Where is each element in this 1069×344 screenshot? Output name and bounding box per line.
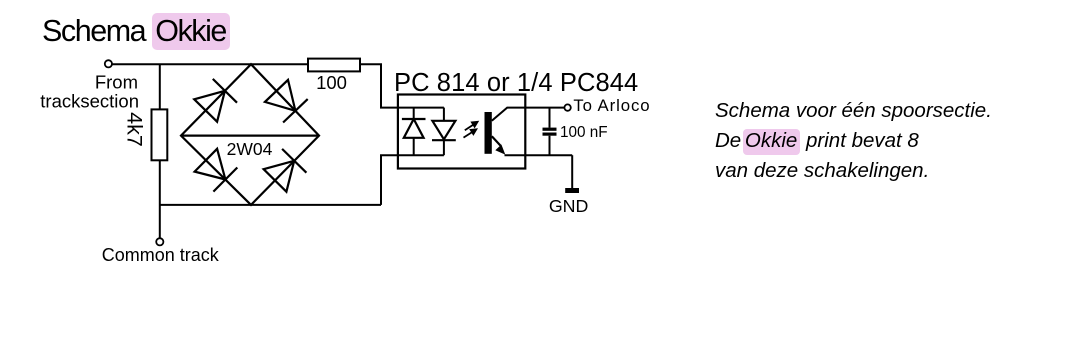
- wire resistor to opto (top input): [360, 64, 399, 107]
- wire top horizontal: [112, 63, 308, 65]
- emitter arrowhead: [495, 145, 505, 155]
- bridge rectifier 2W04 diamond outline: [181, 64, 319, 205]
- phototransistor collector: [492, 108, 565, 121]
- terminal (To Arloco): [564, 104, 570, 110]
- wire bottom to opto (bottom input): [381, 155, 399, 205]
- opto input bottom rail: [398, 154, 444, 156]
- svg-text:tracksection: tracksection: [40, 91, 139, 112]
- svg-text:GND: GND: [549, 196, 589, 216]
- optocoupler U1 package box: [398, 95, 525, 169]
- wire to ground: [571, 155, 573, 188]
- bridge diode D3 (left-to-bottom): [195, 149, 238, 192]
- wire bottom horizontal: [160, 204, 381, 206]
- wire left vertical: [159, 64, 161, 238]
- phototransistor Q1 base bar: [485, 112, 492, 154]
- svg-text:PC 814 or 1/4 PC844: PC 814 or 1/4 PC844: [394, 69, 638, 97]
- opto LED1 (pointing up): [402, 108, 426, 156]
- svg-text:100: 100: [316, 72, 347, 93]
- bridge mid line (left vertex to right vertex): [181, 135, 319, 137]
- light arrow 2: [464, 128, 479, 137]
- capacitor C1 bottom stub: [549, 136, 551, 156]
- bridge diode D1 (left-to-top): [194, 79, 237, 122]
- light arrow 1: [465, 121, 479, 130]
- svg-text:Common track: Common track: [102, 245, 220, 265]
- phototransistor emitter: [492, 136, 501, 145]
- title "Schema Okkie": [42, 14, 230, 49]
- resistor R2 100 body: [308, 59, 360, 72]
- opto input top rail: [398, 107, 444, 109]
- svg-text:To Arloco: To Arloco: [573, 96, 650, 115]
- opto LED2 (pointing down): [432, 108, 456, 156]
- bridge diode D4 (bottom-to-right): [264, 149, 307, 192]
- bridge diode D2 (top-to-right): [265, 80, 308, 123]
- capacitor C1 top stub: [549, 108, 551, 128]
- capacitor C1 plates: [543, 128, 557, 131]
- ground bar: [565, 188, 579, 193]
- note paragraph right side: [715, 96, 992, 185]
- svg-text:100 nF: 100 nF: [560, 124, 608, 141]
- terminal (From tracksection): [105, 60, 112, 67]
- svg-text:4k7: 4k7: [123, 112, 147, 147]
- wire emitter out: [505, 154, 573, 156]
- terminal (Common track): [156, 238, 163, 245]
- svg-text:From: From: [95, 72, 138, 93]
- resistor R1 4k7 body: [152, 109, 168, 160]
- svg-text:2W04: 2W04: [227, 139, 273, 159]
